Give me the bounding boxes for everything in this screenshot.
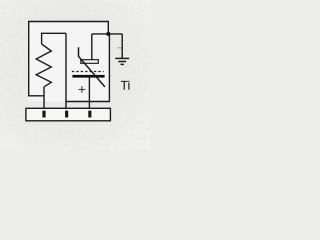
wire: tap to terminal 2 <box>65 102 67 112</box>
capacitor bottom plate <box>72 75 104 78</box>
enclosure case interior <box>29 22 110 102</box>
wire: ground stem <box>121 34 123 58</box>
variable contact arm <box>79 47 105 87</box>
enclosure case outline <box>29 22 109 96</box>
faint minus mark near ground <box>118 47 122 48</box>
wire: capacitor bottom lead <box>88 78 90 112</box>
terminal 2 <box>65 111 68 118</box>
terminal 3 <box>88 111 91 118</box>
wire: resistor bottom lead to terminal 1 <box>43 87 45 112</box>
wire: top horizontal bus to ground <box>92 33 122 35</box>
ground <box>115 58 129 64</box>
terminal strip <box>26 108 111 121</box>
dielectric dashed line <box>72 71 104 73</box>
wire: capacitor top lead <box>91 34 93 60</box>
wire: right loop around capacitor <box>66 33 109 101</box>
terminal 1 <box>42 111 45 118</box>
capacitor top plate <box>81 60 99 64</box>
svg-text:Ti: Ti <box>121 80 131 93</box>
resistor R <box>36 44 51 87</box>
polarity mark + <box>79 86 86 93</box>
node: junction dot <box>106 32 110 36</box>
wire: resistor top lead and bus <box>42 33 66 44</box>
